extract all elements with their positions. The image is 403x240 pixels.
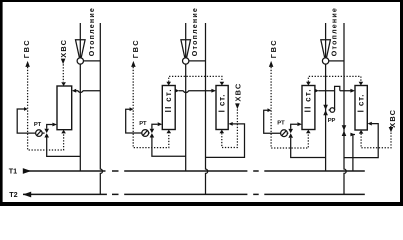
wire elevator E2 to return riser [189,60,206,62]
svg-text:Отопление: Отопление [88,7,96,56]
heat exchanger HX3a stage II [302,86,315,130]
node HX2b top nozzle arrow [220,82,225,86]
svg-text:Отопление: Отопление [191,7,199,56]
svg-text:ХВС: ХВС [59,39,68,58]
heat exchanger HX3b stage I [355,86,367,131]
wire elevator E3 to return riser [329,60,344,62]
svg-text:ХВС: ХВС [233,83,242,102]
valve V1 [44,129,49,138]
node HX1 bottom nozzle arrow [61,130,66,134]
pipe heating supply riser 2 [185,23,187,171]
wire valve V2 down to riser [152,138,186,157]
elevator E3 circle [322,58,328,64]
node HX3b bottom nozzle arrow [359,130,364,134]
valve V3 [288,129,293,138]
svg-text:I ст.: I ст. [218,94,227,113]
node HX3a top nozzle arrow [306,82,311,86]
wire T2 return main [23,193,365,195]
node PT1 sensor arrow [24,107,28,111]
node HX1 left nozzle arrow [52,123,57,127]
node HX3a right nozzle arrow [315,89,319,93]
elevator E3 cone [321,40,331,57]
svg-text:T1: T1 [9,167,17,176]
node HX1 top nozzle arrow [61,82,66,86]
node T1 arrow [23,168,31,174]
elevator E2 cone [181,40,191,57]
wire GVS 2 dotted [133,67,169,148]
node XVS 3 arrow down [389,127,394,132]
node HX1 right nozzle arrow [72,89,76,93]
node GVS 3 arrow up [269,61,274,67]
wire PT2 sensor line [126,109,142,133]
svg-text:ГВС: ГВС [22,39,31,58]
node HX2a left nozzle arrow [158,122,163,126]
node HX2b left nozzle arrow [211,89,216,93]
node PT2 sensor arrow [130,107,134,111]
node HX3b left bottom nozzle arrow [350,133,355,137]
valve V2 [150,129,155,138]
elevator E2 circle [183,58,189,64]
svg-text:I ст.: I ст. [357,94,366,113]
node HX2a top nozzle arrow [166,82,171,86]
regulator PT2 circle [142,130,149,137]
wire HX1 to return riser with hop [76,91,101,93]
wire GVS 3 dotted [271,67,308,148]
elevator E1 circle [77,58,83,64]
node HX3b top nozzle arrow [359,82,364,86]
wire T1 supply main [23,170,365,172]
wire HX2b to return riser [206,124,245,157]
wire valve V2 to HX2a [152,124,158,129]
heat exchanger HX2b stage I [216,86,228,130]
wire HX3b right to return riser [344,124,378,158]
node HX2b right nozzle arrow [228,122,232,126]
svg-text:РР: РР [328,118,336,124]
wire PT3 sensor line [264,110,281,133]
svg-text:РТ: РТ [34,122,42,128]
wire interstage link group 3 [318,90,350,92]
svg-text:РТ: РТ [139,121,147,127]
heat exchanger HX1 [57,86,72,130]
heat exchanger HX2a stage II [162,86,175,130]
regulator PT1 circle [36,130,43,137]
wire PP impulse overpass [335,86,340,110]
node HX3a left nozzle arrow [297,122,302,126]
node HX3a bottom nozzle arrow [306,130,311,134]
pipe heating return riser 3 with hop over T1 [344,23,346,194]
wire XVS 2 dotted path [222,109,238,147]
pipe heating return riser 1 with hop over T1 [100,23,102,194]
wire valve V3 down to riser [291,138,326,158]
pipe heating supply riser 1 [79,23,81,171]
pipe heating supply riser 3 [325,23,327,171]
valve check on return riser [342,125,347,136]
node GVS 1 arrow up [25,61,30,67]
wire valve V1 down to riser [47,138,81,157]
wire valve V3 to HX3a [291,124,298,129]
svg-text:T2: T2 [9,190,17,199]
svg-text:ХВС: ХВС [388,109,397,128]
wire PT3 to valve [287,132,288,134]
wire top dotted link group 3 [308,76,361,81]
elevator E1 cone [76,40,86,57]
node HX2b bottom nozzle arrow [220,130,225,134]
node HX3b left nozzle arrow [350,89,355,93]
svg-text:II ст.: II ст. [164,88,173,112]
node XVS 1 arrow down [61,59,66,65]
wire HX3b left bottom down to T1 [353,135,355,171]
node HX2a bottom nozzle arrow [167,130,172,134]
wire XVS 1 dotted into HX1 top [62,64,64,82]
regulator PT3 circle [281,130,288,137]
node PP actuator arrow [328,109,330,112]
wire valve V1 to HX1 [47,125,53,129]
wire PT1 sensor line [17,109,35,133]
wire interstage link group 2 with hops [179,91,212,93]
node XVS 2 arrow down [235,103,240,109]
svg-text:РТ: РТ [277,121,285,127]
svg-text:II ст.: II ст. [304,88,313,112]
svg-text:ГВС: ГВС [131,39,140,58]
regulator PP circle [330,108,335,113]
wire top dotted link group 2 [169,76,222,81]
svg-text:Отопление: Отопление [330,7,338,56]
node T2 arrow [23,192,31,198]
wire elevator E1 to return riser [84,60,101,62]
pipe heating return riser 2 with hop over T1 [206,23,208,194]
wire PT2 to valve [149,132,150,134]
wire PT1 to valve [42,132,44,134]
svg-text:ГВС: ГВС [269,39,278,58]
wire GVS 1 dotted [28,67,64,150]
node HX2a right nozzle arrow [175,89,179,93]
wire XVS 3 dotted path [361,132,391,148]
node HX3b right nozzle arrow [368,122,372,126]
node PT3 sensor arrow [268,108,272,112]
node GVS 2 arrow up [131,61,136,67]
valve PP on supply riser [323,105,328,116]
